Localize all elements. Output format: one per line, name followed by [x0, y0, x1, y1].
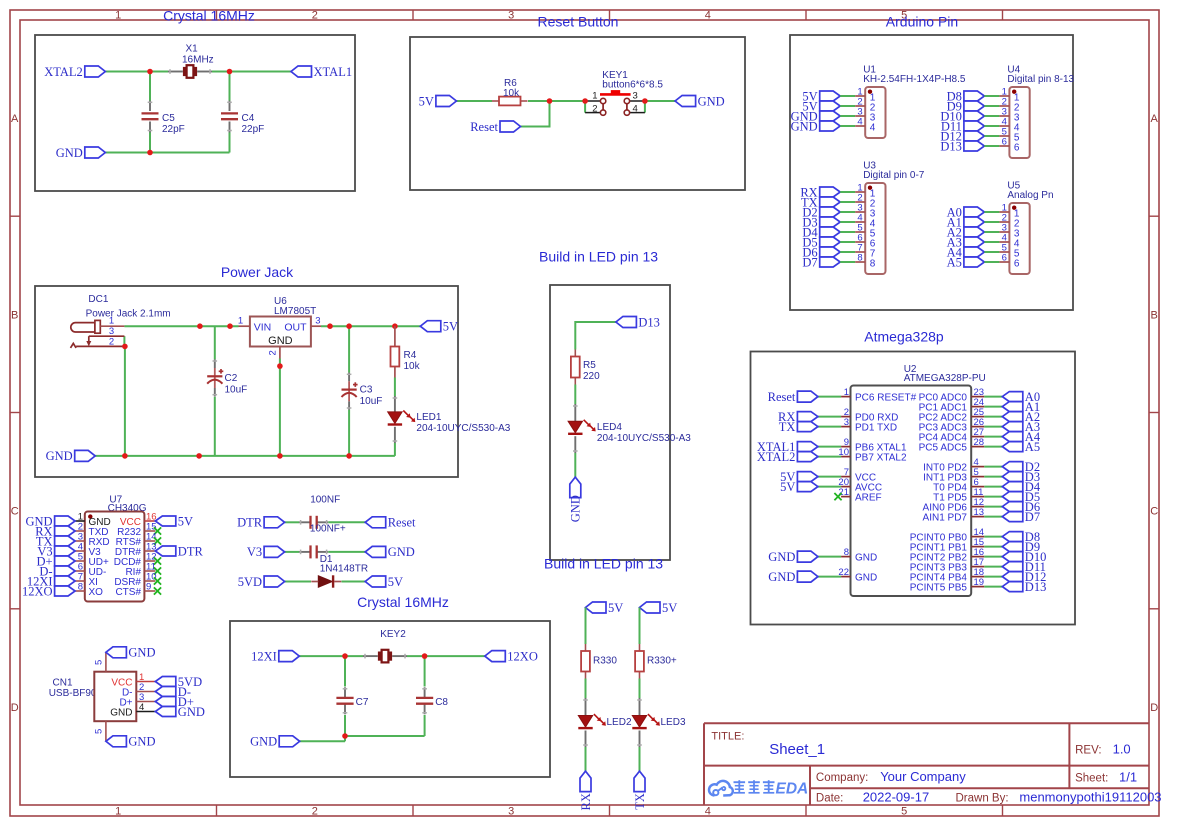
port GND bottom	[106, 736, 127, 747]
svg-text:GND: GND	[110, 707, 132, 718]
svg-text:10k: 10k	[404, 361, 421, 372]
U2 pin 25 PC2 ADC2	[971, 416, 984, 418]
U7 pin 14 RTS#	[144, 540, 155, 542]
U2 pin 13 AIN1 PD7	[971, 516, 984, 518]
port XTAL1	[291, 66, 312, 77]
svg-text:5V: 5V	[608, 601, 623, 615]
svg-text:Analog Pn: Analog Pn	[1007, 190, 1053, 201]
port GND	[55, 516, 76, 526]
no-connect X	[154, 527, 161, 534]
svg-text:C2: C2	[225, 373, 238, 384]
svg-text:8: 8	[870, 258, 876, 269]
svg-text:AIN1 PD7: AIN1 PD7	[923, 513, 968, 524]
svg-text:5: 5	[94, 660, 105, 665]
port RX	[580, 771, 591, 792]
U2 pin 22 GND	[841, 576, 850, 578]
svg-text:GND: GND	[791, 119, 818, 133]
wire C7 branch	[344, 656, 346, 686]
svg-text:R330: R330	[593, 656, 617, 667]
pin 5 of U3 net D4	[820, 227, 841, 237]
svg-text:GND: GND	[178, 705, 205, 719]
pin 7 of U3 net D6	[820, 247, 841, 257]
wire U6 pin2 to rail	[279, 359, 281, 456]
svg-text:R330+: R330+	[647, 656, 677, 667]
pin 4 of U5 net A3	[964, 237, 985, 247]
U2 pin 12 AIN0 PD6	[971, 506, 984, 508]
svg-text:19: 19	[974, 577, 985, 588]
section box Arduino Pin	[790, 35, 1073, 310]
wire OUT to 5V	[321, 325, 420, 327]
pin 6 of U5 net A5	[964, 257, 985, 267]
port D+	[55, 556, 76, 566]
svg-text:Arduino Pin: Arduino Pin	[886, 13, 958, 29]
LED LED2	[585, 698, 587, 716]
pin 5 of U4 net D12	[964, 131, 985, 141]
svg-text:C7: C7	[356, 697, 369, 708]
svg-text:Power Jack: Power Jack	[221, 264, 294, 280]
U7 pin 12 DCD#	[144, 560, 155, 562]
pin 6 of U4 net D13	[964, 141, 985, 151]
port GND	[279, 736, 300, 747]
U2 pin 8 GND	[841, 556, 850, 558]
no-connect X on AREF	[834, 493, 841, 500]
port 12XI	[279, 651, 300, 662]
LED1	[394, 396, 396, 412]
no-connect X	[154, 587, 161, 594]
svg-text:D13: D13	[638, 315, 660, 329]
svg-text:3: 3	[109, 326, 114, 337]
capacitor C4	[229, 101, 231, 112]
CN1 pin 1 VCC	[136, 681, 155, 683]
svg-text:OUT: OUT	[284, 321, 307, 333]
U2 pin 10 PB7 XTAL2	[841, 456, 850, 458]
LED LED3	[639, 698, 641, 716]
svg-text:3: 3	[315, 316, 320, 327]
resistor R5	[574, 350, 576, 357]
svg-text:LED1: LED1	[416, 412, 441, 423]
svg-text:4: 4	[633, 103, 638, 114]
U2 pin 24 PC1 ADC1	[971, 406, 984, 408]
pin 2 of U5 net A1	[964, 217, 985, 227]
svg-text:USB-BF90: USB-BF90	[49, 688, 97, 699]
wire crystal to 12XO	[407, 655, 485, 657]
svg-text:C3: C3	[360, 384, 373, 395]
svg-text:Your Company: Your Company	[880, 769, 966, 784]
capacitor C2 polarized	[214, 359, 216, 368]
svg-text:ATMEGA328P-PU: ATMEGA328P-PU	[904, 373, 986, 384]
svg-text:13: 13	[974, 507, 985, 518]
svg-text:A: A	[11, 113, 19, 125]
svg-text:PC5 ADC5: PC5 ADC5	[919, 443, 968, 454]
svg-text:10uF: 10uF	[225, 385, 248, 396]
wire LED4 to GND	[574, 453, 576, 477]
wire C4 branch	[229, 72, 231, 101]
wire resistor to LED	[585, 679, 587, 699]
wire DC1 pin2 to bottom rail	[124, 346, 126, 456]
svg-text:R4: R4	[404, 350, 417, 361]
wire XTAL2 net	[105, 71, 168, 73]
svg-text:C: C	[1150, 506, 1158, 518]
U7 pin 3 RXD	[75, 540, 85, 542]
U2 pin 28 PC5 ADC5	[971, 446, 984, 448]
crystal X1	[168, 71, 183, 73]
connector U1 KH-2.54FH-1X4P-H8.5	[865, 87, 885, 138]
wire Reset branch	[521, 101, 550, 127]
wire C5 branch	[149, 72, 151, 101]
svg-text:R5: R5	[583, 360, 596, 371]
svg-text:CN1: CN1	[53, 678, 73, 689]
svg-text:GND: GND	[268, 335, 293, 347]
pin 1 of U3 net RX	[820, 187, 841, 197]
svg-text:6: 6	[1014, 142, 1020, 153]
CN1 shield pin 5 top	[105, 652, 107, 671]
svg-text:Date:: Date:	[816, 793, 844, 805]
pin 4 of U4 net D11	[964, 121, 985, 131]
IC U2 ATMEGA328P-PU	[851, 386, 972, 597]
svg-text:5VD: 5VD	[238, 575, 262, 589]
svg-text:C5: C5	[162, 113, 175, 124]
U2 pin 7 VCC	[841, 476, 850, 478]
pin 2 of U3 net TX	[820, 197, 841, 207]
svg-text:B: B	[1151, 309, 1158, 321]
junction node GND-C5	[147, 150, 153, 156]
capacitor C3 polarized	[348, 373, 350, 382]
title block frame	[704, 722, 1149, 724]
U2 pin 18 PCINT4 PB4	[971, 576, 984, 578]
svg-text:GND: GND	[768, 550, 795, 564]
svg-text:REV:: REV:	[1075, 745, 1101, 757]
svg-text:button6*6*8.5: button6*6*8.5	[602, 80, 663, 91]
junction KEY1 pin1	[582, 98, 588, 104]
port 5V	[640, 602, 661, 613]
wire D13 to R5	[575, 322, 616, 350]
svg-text:D7: D7	[1025, 510, 1040, 524]
wire DC1 pin3 drop	[123, 336, 125, 346]
U2 pin 21 AREF	[841, 496, 850, 498]
pin 6 of U3 net D5	[820, 237, 841, 247]
svg-text:1: 1	[844, 387, 849, 398]
port V3	[264, 546, 285, 557]
U2 pin 9 PB6 XTAL1	[841, 446, 850, 448]
svg-text:Sheet:: Sheet:	[1075, 772, 1108, 784]
section box Build in LED pin 13	[550, 285, 670, 560]
junction Reset node	[547, 98, 553, 104]
svg-text:1: 1	[115, 10, 121, 22]
section box Crystal 16MHz	[35, 35, 355, 191]
port XTAL2	[85, 66, 106, 77]
LED4	[574, 404, 576, 421]
section box Crystal 16MHz bottom	[230, 621, 550, 777]
svg-text:GND: GND	[569, 495, 583, 522]
svg-text:3: 3	[844, 417, 849, 428]
svg-text:LED3: LED3	[661, 717, 686, 728]
crystal KEY2	[363, 655, 378, 657]
svg-text:Digital pin 8-13: Digital pin 8-13	[1007, 74, 1074, 85]
svg-text:GND: GND	[250, 735, 277, 749]
svg-text:2: 2	[267, 350, 278, 355]
svg-text:LED4: LED4	[597, 422, 622, 433]
U7 pin 10 DSR#	[144, 580, 155, 582]
svg-text:4: 4	[870, 122, 876, 133]
svg-text:GND: GND	[388, 545, 415, 559]
wire R4 LED branch	[394, 378, 396, 397]
svg-text:8: 8	[844, 547, 849, 558]
svg-text:1: 1	[115, 806, 121, 818]
svg-text:22pF: 22pF	[242, 124, 265, 135]
svg-text:1: 1	[109, 315, 114, 326]
U2 pin 16 PCINT2 PB2	[971, 556, 984, 558]
svg-text:RX: RX	[579, 793, 593, 810]
port GND	[675, 96, 696, 107]
svg-text:XTAL2: XTAL2	[44, 65, 83, 79]
pin 3 of U3 net D2	[820, 207, 841, 217]
no-connect X	[154, 567, 161, 574]
U7 pin 16 VCC	[144, 520, 155, 522]
svg-text:TX: TX	[633, 793, 647, 810]
U2 pin 5 INT1 PD3	[971, 476, 984, 478]
pin 5 of U5 net A4	[964, 247, 985, 257]
pin 2 of U4 net D9	[964, 101, 985, 111]
pin 3 of U4 net D10	[964, 111, 985, 121]
svg-text:KEY2: KEY2	[380, 629, 406, 640]
svg-text:XTAL1: XTAL1	[314, 65, 353, 79]
U7 pin 4 V3	[75, 550, 85, 552]
svg-text:6: 6	[1014, 258, 1020, 269]
port D+	[155, 697, 176, 707]
port Reset	[500, 121, 521, 132]
svg-text:1/1: 1/1	[1119, 769, 1137, 784]
svg-text:8: 8	[857, 252, 862, 263]
wire KEY1 lower right	[644, 101, 646, 113]
svg-text:GND: GND	[128, 735, 155, 749]
svg-text:TX: TX	[779, 420, 796, 434]
svg-text:100NF: 100NF	[310, 495, 340, 506]
svg-text:4: 4	[857, 116, 862, 127]
svg-text:5V: 5V	[780, 480, 795, 494]
U2 pin 2 PD0 RXD	[841, 416, 850, 418]
section box Power Jack	[35, 286, 458, 477]
resistor R330+	[639, 644, 641, 651]
port 5VD	[155, 677, 176, 687]
junction KEY1 pin3	[642, 98, 648, 104]
wire resistor to LED	[639, 679, 641, 699]
CN1 shield pin 5 bottom	[105, 721, 107, 741]
U7 pin 13 DTR#	[144, 550, 155, 552]
svg-text:C: C	[11, 506, 19, 518]
section box Reset Button	[410, 37, 745, 190]
capacitor C5	[149, 101, 151, 112]
svg-text:PD1 TXD: PD1 TXD	[855, 423, 897, 434]
wire LED to port	[585, 747, 587, 771]
U7 pin 7 XI	[75, 580, 85, 582]
svg-text:CTS#: CTS#	[115, 587, 141, 598]
svg-text:D7: D7	[802, 255, 817, 269]
svg-text:Crystal 16MHz: Crystal 16MHz	[357, 594, 449, 610]
svg-text:3: 3	[508, 10, 514, 22]
port GND	[85, 147, 106, 158]
port 5VD	[264, 576, 285, 587]
svg-text:100NF+: 100NF+	[310, 523, 346, 534]
svg-text:DTR: DTR	[237, 516, 263, 530]
svg-text:AREF: AREF	[855, 493, 882, 504]
port 12XO	[485, 651, 506, 662]
port DTR	[155, 546, 176, 556]
svg-text:V3: V3	[247, 545, 262, 559]
svg-text:D13: D13	[1025, 580, 1047, 594]
svg-text:A5: A5	[947, 255, 962, 269]
U2 pin 4 INT0 PD2	[971, 466, 984, 468]
junction dots power jack	[197, 323, 203, 329]
junction GND-C7	[342, 733, 348, 739]
port DTR	[264, 517, 285, 528]
U2 pin 19 PCINT5 PB5	[971, 586, 984, 588]
svg-text:Digital pin 0-7: Digital pin 0-7	[863, 170, 925, 181]
svg-text:4: 4	[705, 806, 711, 818]
pin 1 of U1 net 5V	[820, 91, 841, 101]
U7 pin 1 GND	[75, 520, 85, 522]
svg-text:GND: GND	[768, 570, 795, 584]
port 12XO	[55, 586, 76, 596]
pin 3 of U5 net A2	[964, 227, 985, 237]
wire C2 branch	[214, 326, 216, 359]
wire 12XI to crystal	[299, 655, 363, 657]
pin 4 of U1 net GND	[820, 121, 841, 131]
svg-text:9: 9	[146, 582, 151, 593]
svg-text:EDA: EDA	[776, 780, 809, 797]
svg-text:5V: 5V	[443, 320, 458, 334]
svg-text:4: 4	[139, 702, 144, 713]
svg-text:4: 4	[705, 10, 711, 22]
JLC EDA logo	[709, 781, 733, 796]
wire GND run	[300, 740, 345, 742]
CN1 pin 2 D-	[136, 691, 155, 693]
svg-text:C8: C8	[435, 697, 448, 708]
capacitor C7	[344, 687, 346, 698]
svg-text:D: D	[11, 702, 19, 714]
svg-text:1.0: 1.0	[1113, 742, 1131, 757]
wire KEY1 lower left	[584, 101, 586, 113]
svg-text:C4: C4	[242, 113, 255, 124]
svg-text:2022-09-17: 2022-09-17	[863, 790, 930, 805]
U7 pin 8 XO	[75, 590, 85, 592]
wire KEY1 to GND	[645, 100, 675, 102]
port V3	[55, 546, 76, 556]
pin 2 of U1 net 5V	[820, 101, 841, 111]
svg-text:Build in LED pin 13: Build in LED pin 13	[544, 556, 663, 572]
svg-text:28: 28	[974, 437, 985, 448]
svg-text:Atmega328p: Atmega328p	[864, 329, 944, 345]
svg-text:10uF: 10uF	[360, 396, 383, 407]
svg-text:TITLE:: TITLE:	[711, 730, 744, 742]
U2 pin 11 T1 PD5	[971, 496, 984, 498]
svg-text:2: 2	[592, 103, 597, 114]
svg-text:PB7 XTAL2: PB7 XTAL2	[855, 453, 907, 464]
port 5V right	[420, 321, 441, 332]
svg-text:Build in LED pin 13: Build in LED pin 13	[539, 249, 658, 265]
port TX	[55, 536, 76, 546]
wire 5V to resistor	[585, 608, 587, 645]
svg-text:10k: 10k	[503, 88, 520, 99]
svg-text:KH-2.54FH-1X4P-H8.5: KH-2.54FH-1X4P-H8.5	[863, 74, 966, 85]
port D-	[55, 566, 76, 576]
svg-text:5V: 5V	[178, 514, 193, 528]
junction node XTAL2-C5	[147, 69, 153, 75]
svg-text:3: 3	[633, 90, 638, 101]
wire LED to port	[639, 747, 641, 771]
resistor R6	[492, 100, 499, 102]
svg-text:GND: GND	[46, 449, 73, 463]
svg-text:12XO: 12XO	[507, 649, 538, 663]
svg-text:2: 2	[312, 10, 318, 22]
svg-text:GND: GND	[56, 146, 83, 160]
junction node XTAL1-C4	[227, 69, 233, 75]
port 5V	[155, 516, 176, 526]
pin 8 of U3 net D7	[820, 257, 841, 267]
U7 pin 11 RI#	[144, 570, 155, 572]
no-connect X	[154, 577, 161, 584]
pushbutton KEY1	[585, 100, 600, 102]
svg-text:Reset: Reset	[388, 516, 416, 530]
svg-text:X1: X1	[186, 44, 199, 55]
port GND	[365, 546, 386, 557]
svg-text:1: 1	[592, 90, 597, 101]
resistor R330	[585, 644, 587, 651]
svg-text:3: 3	[508, 806, 514, 818]
port GND top	[106, 647, 127, 658]
wire R5 to LED4	[574, 385, 576, 405]
connector U4 Digital pin 8-13	[1009, 87, 1029, 158]
wire C8 branch	[424, 656, 426, 686]
svg-text:2: 2	[312, 806, 318, 818]
svg-text:Reset: Reset	[768, 390, 796, 404]
port D-	[155, 687, 176, 697]
svg-text:12XO: 12XO	[22, 584, 53, 598]
port D13	[616, 317, 637, 328]
wire crystal to XTAL1	[212, 71, 291, 73]
pin 4 of U3 net D3	[820, 217, 841, 227]
junction 12XI-C7	[342, 653, 348, 659]
svg-text:21: 21	[838, 487, 849, 498]
U7 pin 9 CTS#	[144, 590, 155, 592]
pin 3 of U1 net GND	[820, 111, 841, 121]
svg-text:12XI: 12XI	[251, 649, 277, 663]
svg-text:6: 6	[1002, 252, 1007, 263]
svg-text:XO: XO	[89, 587, 104, 598]
svg-text:A5: A5	[1025, 440, 1040, 454]
capacitor row V3-GND	[285, 551, 299, 553]
svg-text:GND: GND	[128, 646, 155, 660]
svg-text:PC6 RESET#: PC6 RESET#	[855, 393, 917, 404]
resistor R4	[394, 326, 396, 346]
connector U3 Digital pin 0-7	[865, 183, 885, 274]
svg-text:22pF: 22pF	[162, 124, 185, 135]
svg-text:D: D	[1150, 702, 1158, 714]
no-connect X	[154, 557, 161, 564]
svg-text:D13: D13	[940, 139, 962, 153]
svg-text:5V: 5V	[662, 601, 677, 615]
svg-text:Reset Button: Reset Button	[538, 13, 619, 29]
pin 1 of U4 net D8	[964, 91, 985, 101]
svg-text:LED2: LED2	[607, 717, 632, 728]
svg-text:Company:: Company:	[816, 772, 868, 784]
U2 pin 20 AVCC	[841, 486, 850, 488]
svg-text:DTR: DTR	[178, 544, 204, 558]
wire DC1 pin1 to VIN	[124, 325, 238, 327]
CN1 pin 3 D+	[136, 701, 155, 703]
svg-text:menmonypothi19112003: menmonypothi19112003	[1019, 790, 1161, 805]
port GND vertical	[570, 477, 581, 498]
junction crystal-C8	[422, 653, 428, 659]
